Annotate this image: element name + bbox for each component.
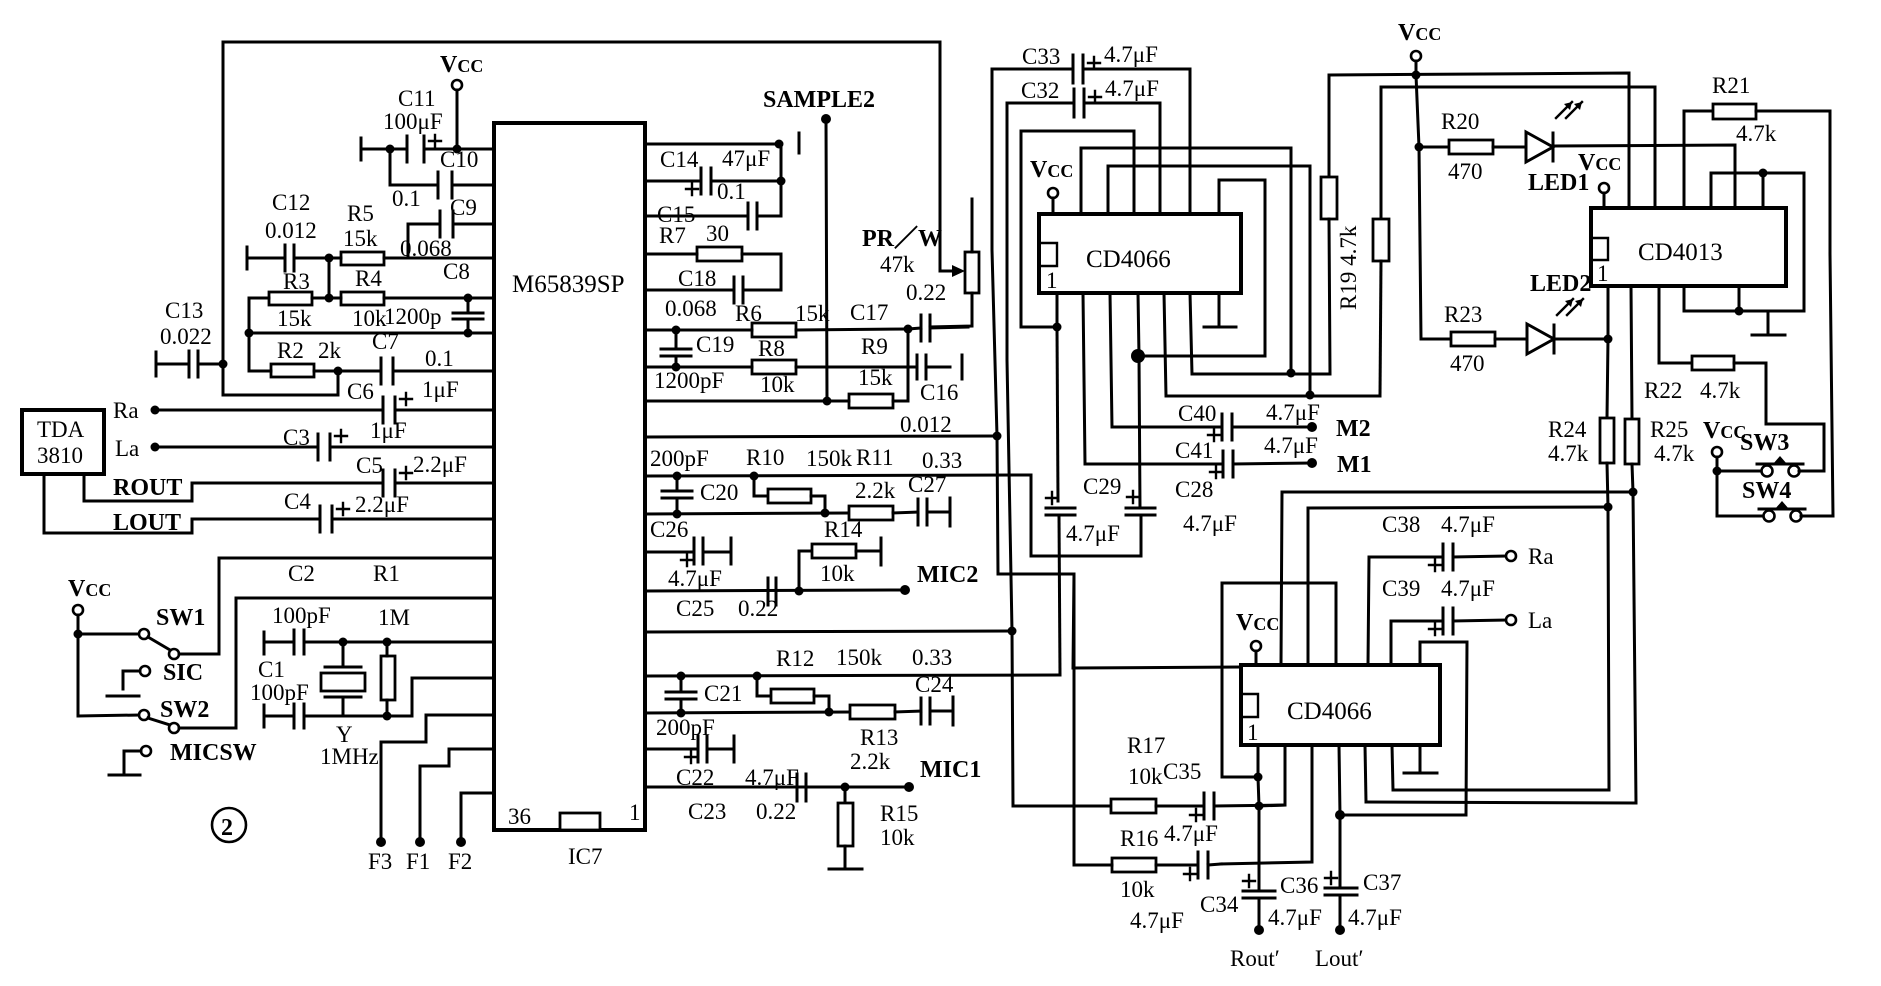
svg-text:C8: C8: [443, 259, 470, 284]
capacitor C29 4.7uF shunt electrolytic: [1046, 474, 1121, 675]
svg-text:150k: 150k: [836, 645, 883, 670]
capacitor C6 1uF electrolytic: [155, 377, 494, 423]
IC CD4066 second box: [1241, 665, 1440, 745]
wire VCC to SW3/SW4: [1716, 457, 1719, 516]
resistor R8 10k: [645, 336, 917, 397]
svg-text:C27: C27: [908, 472, 946, 497]
svg-text:MIC2: MIC2: [917, 562, 978, 588]
node: R12 top junction: [753, 672, 762, 681]
resistor R4 10k: [329, 266, 494, 331]
svg-text:VCC: VCC: [440, 52, 483, 78]
wire: TDA right pin to ROUT row: [84, 474, 383, 501]
svg-text:VCC: VCC: [1578, 150, 1621, 176]
svg-text:C34: C34: [1200, 892, 1239, 917]
wire: R3 left down to lower bus: [248, 298, 251, 333]
svg-text:4.7μF: 4.7μF: [1441, 576, 1495, 601]
svg-text:SIC: SIC: [163, 660, 203, 686]
node: C11 left junction: [386, 145, 395, 154]
ground (CD4066 #1): [1218, 293, 1221, 327]
svg-text:LED2: LED2: [1530, 271, 1591, 297]
wire: C33 right to box pin: [1189, 69, 1192, 214]
svg-text:Ra: Ra: [1528, 544, 1554, 569]
resistor R23 470: [1421, 302, 1527, 376]
svg-text:1: 1: [629, 800, 641, 825]
svg-text:La: La: [1528, 608, 1552, 633]
svg-text:CD4066: CD4066: [1086, 246, 1171, 273]
wire: top pin x1420 frame to right vertical: [1340, 642, 1467, 815]
wire: pin1 frame node down through C36 to Rout: [1258, 777, 1259, 891]
svg-text:R7: R7: [659, 223, 686, 248]
svg-text:VCC: VCC: [1398, 20, 1441, 46]
resistor unlabeled 4.7k vertical (R19 pair): [1373, 87, 1389, 396]
svg-text:0.1: 0.1: [392, 186, 421, 211]
wire H2: resistor pair top to CD4013: [1381, 87, 1655, 208]
svg-text:15k: 15k: [858, 365, 893, 390]
wire: SW4 right up to R21: [1801, 254, 1833, 516]
resistor R11 2.2k: [849, 478, 918, 520]
node: C20 top junction: [673, 472, 682, 481]
wire: VCC down to LED rows: [1416, 61, 1421, 339]
svg-text:1200pF: 1200pF: [654, 368, 724, 393]
capacitor C20 200pF shunt: [662, 476, 738, 514]
capacitor C9 0.068: [400, 195, 494, 261]
wire: long row from IC area to box corner: [1073, 574, 1241, 668]
wire: pin x1190 down to row y374: [1190, 293, 1330, 374]
svg-text:4.7μF: 4.7μF: [1104, 42, 1158, 67]
wire: top pin loop to row y373: [1081, 148, 1291, 373]
node MIC2 terminal: [900, 585, 910, 595]
svg-text:R2: R2: [277, 338, 304, 363]
svg-text:C25: C25: [676, 596, 714, 621]
svg-text:C33: C33: [1022, 44, 1060, 69]
svg-text:C36: C36: [1280, 873, 1318, 898]
svg-text:C29: C29: [1083, 474, 1121, 499]
wire: CD4013 pin1 line down (R24 line): [1607, 286, 1608, 418]
wire: SW3 right up to R22: [1766, 424, 1824, 471]
wire: R25 line from CD4013: [1631, 286, 1632, 419]
svg-text:VCC: VCC: [1236, 610, 1279, 636]
svg-text:R22: R22: [1644, 378, 1682, 403]
svg-text:MIC1: MIC1: [920, 757, 981, 783]
resistor R3 15k: [249, 269, 329, 331]
wire: bottom pin x1285 to C35 row: [1259, 745, 1285, 806]
resistor R6 15k: [645, 301, 908, 337]
svg-text:C4: C4: [284, 489, 311, 514]
svg-text:R5: R5: [347, 201, 374, 226]
svg-text:0.022: 0.022: [160, 324, 212, 349]
node M2 terminal: [1307, 422, 1317, 432]
svg-text:47μF: 47μF: [722, 146, 770, 171]
svg-text:C2: C2: [288, 561, 315, 586]
capacitor C19 1200pF shunt: [654, 330, 734, 393]
wire: R12 row from IC to C29 line: [645, 675, 1060, 676]
node: R2 right / C7: [334, 367, 343, 376]
capacitor C7 0.1: [338, 329, 494, 384]
svg-text:100pF: 100pF: [272, 603, 331, 628]
node F1 terminal: [415, 837, 425, 847]
wire: TDA left pin to LOUT row: [44, 474, 320, 533]
capacitor C23 0.22: [688, 774, 806, 824]
switch SW4 pushbutton: [1717, 478, 1805, 522]
capacitor C12 0.012: [247, 190, 329, 271]
svg-text:Ra: Ra: [113, 398, 139, 423]
wire: left frame vertical: [223, 42, 338, 395]
figure number circled 2: [212, 808, 246, 842]
capacitor C26 4.7uF electrolytic to open bar: [645, 517, 731, 591]
capacitor C38 4.7uF: [1382, 512, 1506, 571]
capacitor C11 100uF electrolytic: [361, 86, 457, 162]
svg-text:R16: R16: [1120, 826, 1158, 851]
terminal La right: [1506, 615, 1516, 625]
svg-text:1: 1: [1597, 261, 1609, 286]
wire: VCC frame around CD4066 #2: [1222, 583, 1336, 665]
svg-text:M1: M1: [1337, 452, 1372, 478]
svg-text:4.7k: 4.7k: [1700, 378, 1741, 403]
svg-text:C19: C19: [696, 332, 734, 357]
svg-text:C11: C11: [398, 86, 436, 111]
svg-text:C26: C26: [650, 517, 688, 542]
wire: CD4013 top loop: [1711, 173, 1804, 311]
svg-text:R20: R20: [1441, 109, 1479, 134]
svg-text:10k: 10k: [1128, 764, 1163, 789]
terminal VCC top: [452, 80, 462, 90]
capacitor C14 47uF electrolytic: [645, 146, 781, 195]
contact MICSW with stub: [109, 740, 257, 775]
svg-text:4.7μF: 4.7μF: [1268, 905, 1322, 930]
capacitor C17: [850, 300, 968, 341]
capacitor C13 0.022: [156, 298, 223, 377]
terminal VCC (CD4013): [1599, 183, 1609, 193]
IC CD4013 box: [1591, 208, 1786, 286]
resistor R15 10k vertical: [838, 783, 918, 869]
svg-text:1200p: 1200p: [384, 304, 442, 329]
capacitor C5 2.2uF electrolytic: [356, 452, 494, 496]
capacitor C10 0.1: [390, 147, 494, 211]
svg-text:3810: 3810: [37, 443, 83, 468]
svg-text:1M: 1M: [378, 605, 410, 630]
svg-text:C1: C1: [258, 657, 285, 682]
diode LED1: [1526, 102, 1735, 208]
wire: top pin x1368 to C38 row: [1368, 557, 1443, 665]
crystal Y 1MHz: [320, 642, 379, 769]
resistor R2 2k: [249, 338, 342, 377]
svg-text:SAMPLE2: SAMPLE2: [763, 87, 875, 113]
svg-text:R4: R4: [355, 266, 382, 291]
terminal VCC lower left: [73, 605, 83, 615]
svg-text:15k: 15k: [277, 306, 312, 331]
svg-text:0.22: 0.22: [738, 596, 778, 621]
svg-text:1: 1: [1046, 268, 1058, 293]
svg-text:Rout′: Rout′: [1230, 946, 1280, 971]
svg-text:4.7k: 4.7k: [1654, 441, 1695, 466]
node F2 terminal: [456, 837, 466, 847]
capacitor C39 4.7uF: [1382, 576, 1506, 635]
svg-text:F3: F3: [368, 849, 392, 874]
wire: bottom pin x1392 to row A: [1392, 745, 1393, 790]
svg-text:2.2k: 2.2k: [855, 478, 896, 503]
capacitor C34 4.7uF series: [1130, 852, 1239, 933]
svg-text:0.012: 0.012: [900, 412, 952, 437]
svg-text:R13: R13: [860, 725, 898, 750]
svg-text:C37: C37: [1363, 870, 1401, 895]
svg-text:470: 470: [1450, 351, 1485, 376]
wire: R3/R4 junction vertical: [328, 258, 331, 298]
svg-text:R19 4.7k: R19 4.7k: [1336, 225, 1361, 310]
wire H1: R19 top to CD4013: [1329, 73, 1629, 208]
svg-text:R14: R14: [824, 517, 863, 542]
svg-text:M2: M2: [1336, 416, 1371, 442]
wire F1: [420, 749, 494, 842]
wire: CD4013 bottom loop: [1684, 286, 1804, 311]
svg-text:4.7μF: 4.7μF: [1441, 512, 1495, 537]
wire: pin x1163 to row y396: [1164, 293, 1380, 396]
wire: 0.33 row from IC: [645, 475, 1031, 476]
node: VCC/C11 right junction: [453, 145, 462, 154]
svg-text:R17: R17: [1127, 733, 1165, 758]
switch SW1: [78, 558, 494, 659]
ground below R15: [829, 868, 862, 871]
svg-text:C23: C23: [688, 799, 726, 824]
svg-text:R3: R3: [283, 269, 310, 294]
svg-text:C7: C7: [372, 329, 399, 354]
svg-text:15k: 15k: [795, 301, 830, 326]
svg-text:4.7μF: 4.7μF: [1130, 908, 1184, 933]
capacitor C28 4.7uF shunt electrolytic: [1126, 477, 1237, 556]
wire: C32 left line down to R17: [1007, 103, 1111, 806]
svg-text:1: 1: [1247, 720, 1259, 745]
node: C19 top junction: [672, 326, 681, 335]
IC TDA3810 box: [22, 410, 104, 474]
IC U-M65839SP box: [494, 123, 645, 830]
wire: crystal bottom row to IC (steps up): [343, 678, 494, 716]
wire: SAMPLE2 vertical to R9 row: [826, 119, 827, 401]
svg-text:4.7k: 4.7k: [1736, 121, 1777, 146]
svg-text:36: 36: [508, 804, 531, 829]
wire: top frame from left edge to PR/W pot: [223, 42, 940, 271]
svg-text:1MHz: 1MHz: [320, 744, 379, 769]
resistor R17 10k: [1013, 733, 1204, 813]
svg-text:R12: R12: [776, 646, 814, 671]
resistor R9 15k body: [645, 329, 908, 408]
svg-text:2.2μF: 2.2μF: [355, 492, 409, 517]
switch SW2: [78, 598, 494, 733]
capacitor C35 4.7uF series: [1163, 759, 1285, 846]
capacitor C41 4.7uF: [1175, 433, 1318, 478]
svg-text:SW2: SW2: [160, 697, 209, 723]
wire: 0.012 row from IC to C33 line: [645, 436, 998, 437]
resistor R12 150k body: [757, 676, 829, 712]
node F3 terminal: [376, 837, 386, 847]
diode LED2: [1527, 271, 1608, 354]
wire: MIC2 row: [645, 590, 905, 591]
resistor R5 15k: [329, 201, 408, 265]
capacitor C15 0.1: [645, 179, 781, 229]
wire F3: [381, 715, 494, 842]
resistor R7 30: [645, 221, 781, 261]
svg-text:C21: C21: [704, 681, 742, 706]
svg-text:15k: 15k: [343, 226, 378, 251]
wire: pin to bottom loop node: [1738, 286, 1741, 311]
node: R1 top junction: [383, 638, 392, 647]
svg-text:10k: 10k: [1120, 877, 1155, 902]
wire: pin x1110 to C40 row: [1110, 293, 1222, 427]
svg-text:SW4: SW4: [1742, 478, 1791, 504]
wire: pin to top loop node: [1762, 173, 1765, 208]
svg-text:4.7μF: 4.7μF: [1264, 433, 1318, 458]
svg-text:C20: C20: [700, 480, 738, 505]
svg-text:C24: C24: [915, 672, 954, 697]
pin notch on IC7 bottom edge: [560, 813, 600, 830]
node: LED2 to R24 line: [1604, 335, 1613, 344]
svg-text:470: 470: [1448, 159, 1483, 184]
resistor R10 150k: [754, 476, 825, 512]
resistor R20 470: [1419, 109, 1526, 184]
svg-text:0.22: 0.22: [756, 799, 796, 824]
resistor R22 4.7k: [1644, 286, 1766, 424]
svg-text:VCC: VCC: [68, 576, 111, 602]
svg-text:10k: 10k: [880, 825, 915, 850]
svg-text:10k: 10k: [352, 306, 387, 331]
svg-text:IC7: IC7: [568, 844, 603, 869]
svg-text:C16: C16: [920, 380, 958, 405]
svg-text:C35: C35: [1163, 759, 1201, 784]
node: R10 top junction: [750, 472, 759, 481]
switch SW3 pushbutton: [1717, 430, 1803, 477]
wire: top pin x1391 to C39 row: [1391, 621, 1443, 665]
svg-text:150k: 150k: [806, 446, 853, 471]
svg-text:2.2μF: 2.2μF: [413, 452, 467, 477]
svg-text:MICSW: MICSW: [170, 740, 257, 766]
capacitor C36 4.7uF shunt: [1243, 873, 1322, 930]
svg-text:10k: 10k: [820, 561, 855, 586]
svg-text:SW3: SW3: [1740, 430, 1789, 456]
wire: C33 left line down to 0.012 row and R16 path: [992, 69, 1113, 865]
wire: pin x1057 down to C29: [1057, 327, 1058, 501]
wire: VCC to C11 node and IC: [457, 90, 494, 149]
wire: inner loop pin x1219: [1138, 180, 1265, 356]
svg-text:F2: F2: [448, 849, 472, 874]
ground (CD4013): [1767, 311, 1770, 333]
svg-text:C10: C10: [440, 147, 478, 172]
svg-text:C38: C38: [1382, 512, 1420, 537]
svg-text:0.22: 0.22: [906, 280, 946, 305]
resistor R19 4.7k vertical: [1321, 75, 1361, 374]
svg-text:CD4066: CD4066: [1287, 698, 1372, 725]
svg-text:C12: C12: [272, 190, 310, 215]
svg-text:R15: R15: [880, 801, 918, 826]
svg-text:R6: R6: [735, 301, 762, 326]
terminal VCC top right: [1411, 51, 1421, 61]
capacitor C4 2.2uF electrolytic: [284, 489, 494, 532]
svg-text:PR／W: PR／W: [862, 225, 942, 252]
svg-text:C40: C40: [1178, 401, 1216, 426]
capacitor C40 4.7uF: [1178, 400, 1320, 441]
svg-text:4.7μF: 4.7μF: [1066, 521, 1120, 546]
svg-text:0.33: 0.33: [912, 645, 952, 670]
svg-text:R24: R24: [1548, 417, 1587, 442]
terminal VCC (SW3): [1712, 447, 1722, 457]
svg-text:R8: R8: [758, 336, 785, 361]
capacitor C8 1200p: [384, 259, 483, 338]
svg-text:0.33: 0.33: [922, 448, 962, 473]
capacitor C22 4.7uF electrolytic to open bar: [645, 736, 799, 790]
svg-text:C13: C13: [165, 298, 203, 323]
svg-text:C6: C6: [347, 379, 374, 404]
wire: lower bus 1200p row: [249, 332, 494, 335]
wire: top pin x1308 to row y507: [1308, 507, 1608, 665]
svg-text:100μF: 100μF: [383, 109, 443, 134]
node: C19 bottom junction: [672, 363, 681, 372]
wire VCC to CD4013: [1603, 193, 1606, 208]
wire: R11 row: [645, 513, 849, 514]
svg-text:4.7μF: 4.7μF: [1183, 511, 1237, 536]
wire: pin1 bottom to frame: [1257, 745, 1260, 777]
node La terminal: [151, 443, 160, 452]
capacitor C27 to open bar: [908, 472, 950, 526]
wire: frame pin loop left (pin to x1021): [1021, 131, 1134, 327]
capacitor C21 200pF shunt: [656, 676, 742, 740]
wire: bottom pin x1312 to R16 row: [1221, 745, 1312, 864]
svg-text:C39: C39: [1382, 576, 1420, 601]
wire: MIC1 row: [645, 786, 909, 789]
svg-text:1μF: 1μF: [422, 377, 459, 402]
node M1 terminal: [1307, 458, 1317, 468]
node Lout' terminal: [1335, 925, 1345, 935]
wire: pin1 bottom to frame node: [1056, 293, 1059, 327]
svg-text:VCC: VCC: [1030, 157, 1073, 183]
svg-text:30: 30: [706, 221, 729, 246]
svg-text:ROUT: ROUT: [113, 475, 182, 501]
wire VCC to box: [1052, 198, 1055, 214]
svg-text:4.7μF: 4.7μF: [1348, 905, 1402, 930]
capacitor C3 1uF electrolytic: [155, 418, 494, 460]
svg-text:R10: R10: [746, 445, 784, 470]
capacitor C1 100pF: [250, 657, 343, 728]
svg-text:200pF: 200pF: [650, 446, 709, 471]
node: crystal top junction: [339, 638, 348, 647]
node: C21 top junction: [677, 672, 686, 681]
IC CD4066 first box: [1039, 214, 1241, 293]
svg-text:0.1: 0.1: [717, 179, 746, 204]
contact SIC with stub: [107, 660, 203, 696]
resistor R25 4.7k vertical: [1366, 417, 1695, 803]
svg-text:100pF: 100pF: [250, 680, 309, 705]
svg-text:C41: C41: [1175, 438, 1213, 463]
wire: C14 right vertical to top row: [780, 144, 783, 216]
wire: top pin loop to row y395: [1108, 166, 1310, 395]
svg-text:0.012: 0.012: [265, 218, 317, 243]
capacitor C37 4.7uF shunt: [1325, 870, 1402, 930]
node: C35/C36 junction: [1255, 802, 1264, 811]
svg-text:C28: C28: [1175, 477, 1213, 502]
potentiometer PR/W 47k: [862, 199, 979, 327]
terminal VCC (CD4066 #2): [1251, 641, 1261, 651]
wire: bottom pin x1365 to row B: [1365, 745, 1366, 802]
svg-text:R9: R9: [861, 334, 888, 359]
svg-text:M65839SP: M65839SP: [512, 271, 625, 298]
resistor R1 1M vertical: [381, 642, 395, 716]
node: C13 junction on left frame: [219, 360, 228, 369]
svg-text:La: La: [115, 436, 139, 461]
capacitor C25 0.22: [676, 578, 778, 621]
svg-text:R1: R1: [373, 561, 400, 586]
wire: bottom pin x1339 down through C37: [1339, 745, 1340, 888]
resistor R24 4.7k vertical: [1393, 417, 1614, 790]
capacitor C32 4.7uF electrolytic: [1007, 76, 1160, 117]
wire: long row from IC to C32 line: [645, 631, 1012, 632]
resistor R16 10k: [1074, 826, 1198, 902]
wire VCC lead: [1255, 651, 1258, 665]
